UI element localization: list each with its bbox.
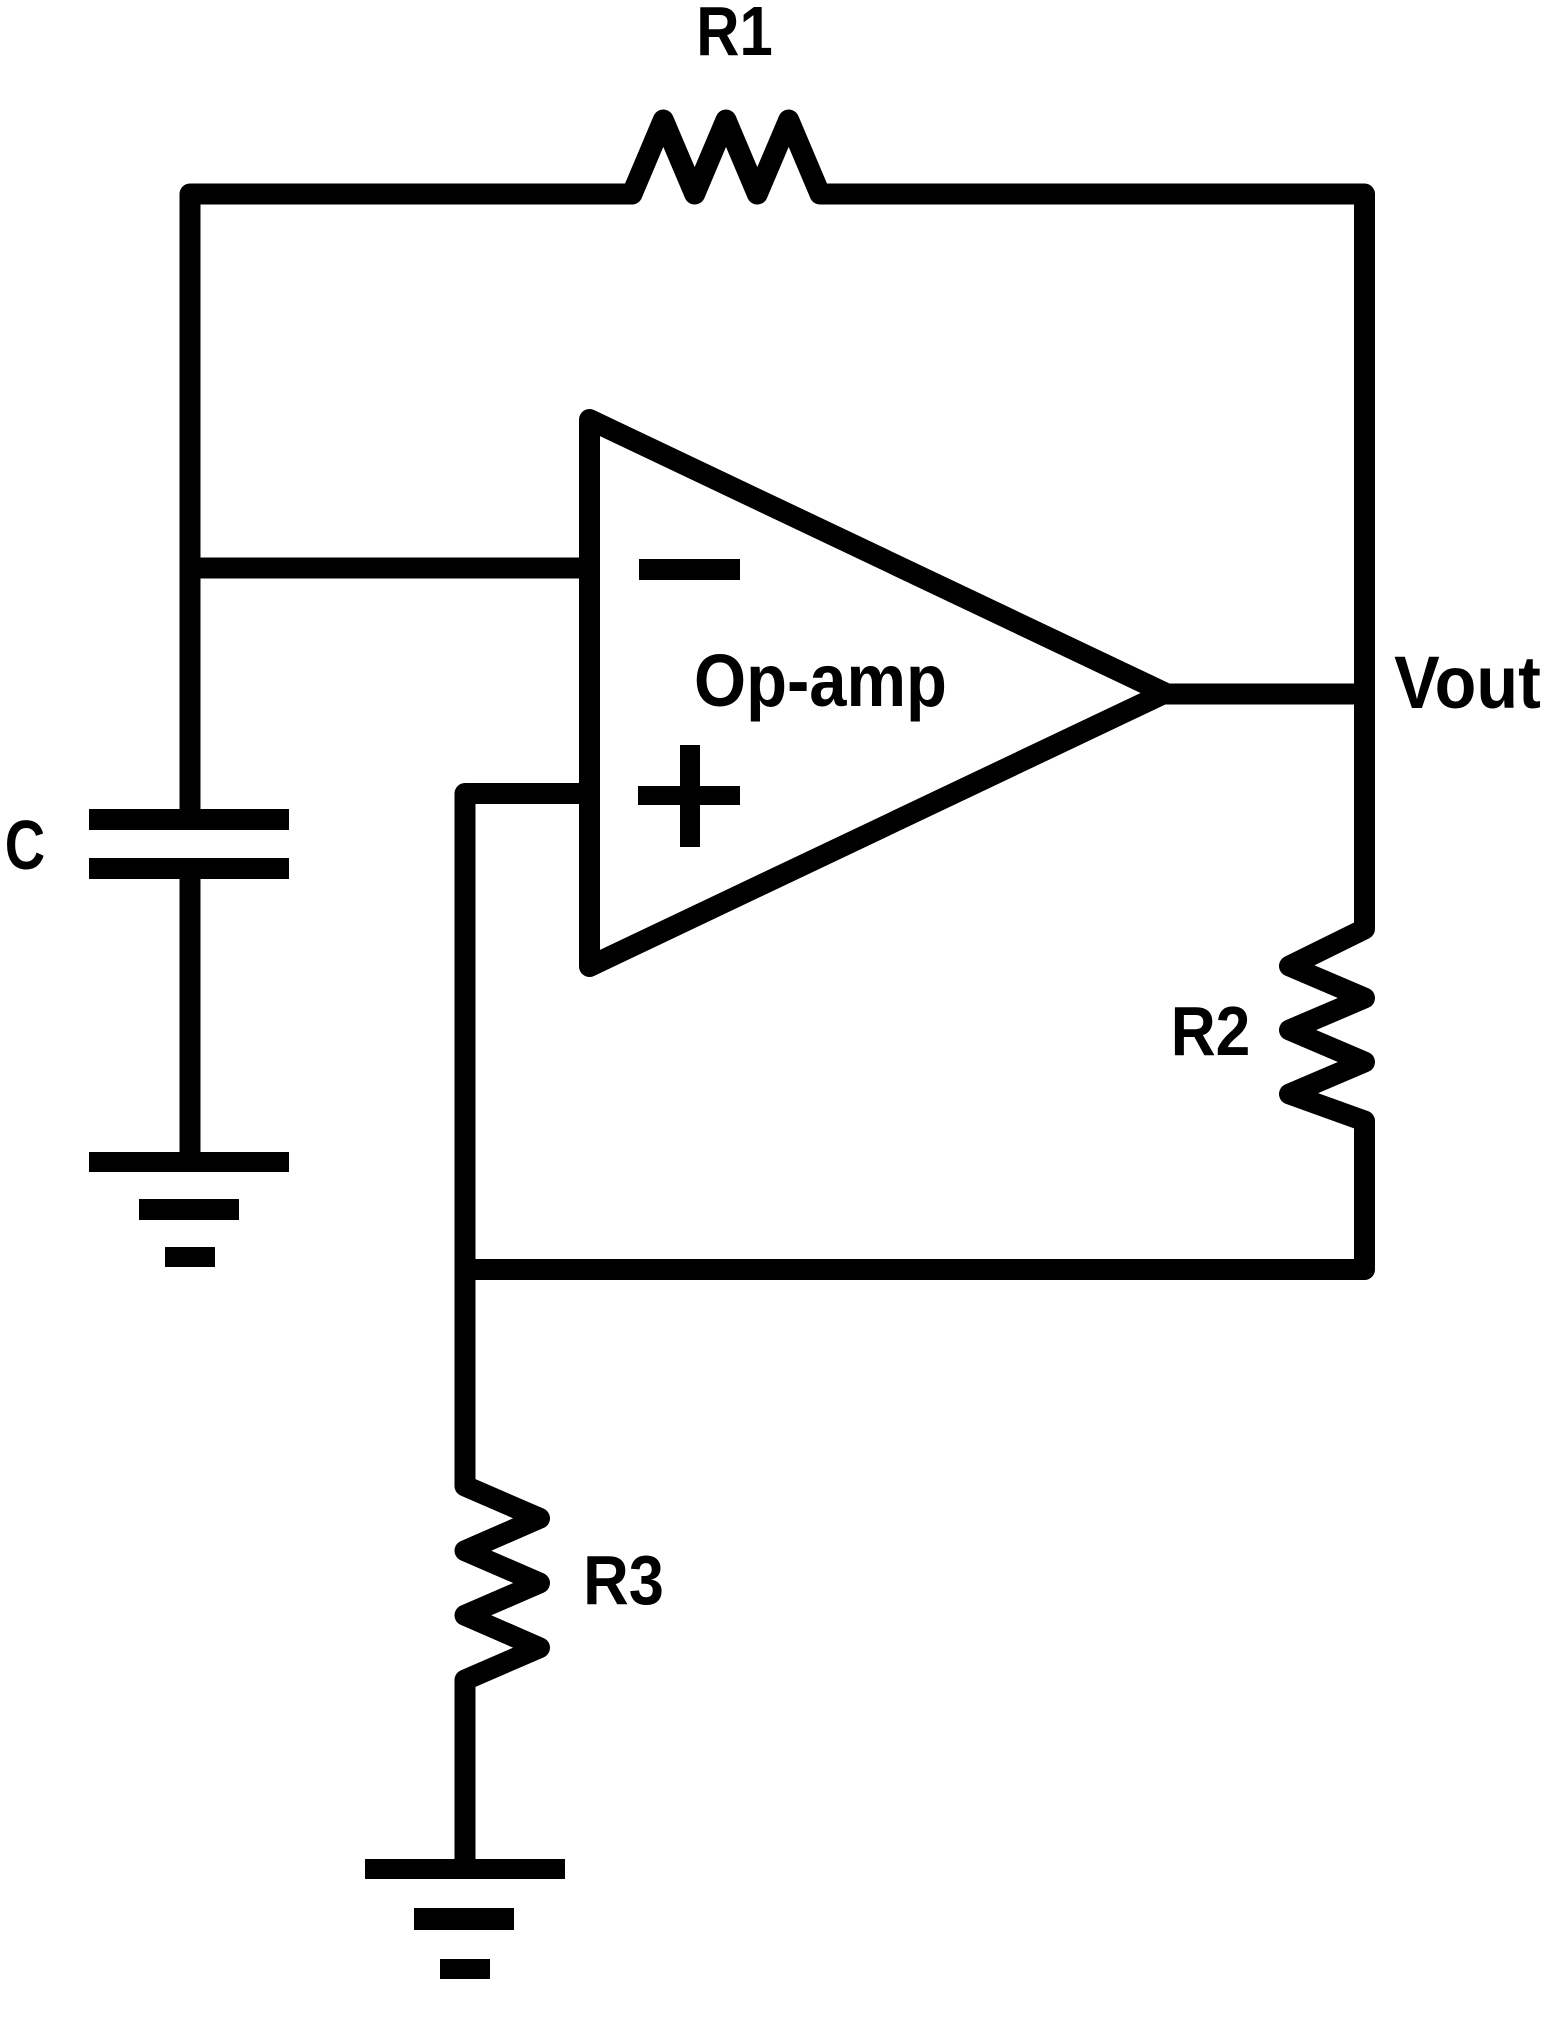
svg-text:R3: R3 (583, 1541, 664, 1619)
svg-text:C: C (5, 806, 45, 884)
svg-text:R1: R1 (696, 0, 773, 70)
svg-text:Op-amp: Op-amp (694, 639, 947, 722)
svg-text:Vout: Vout (1394, 641, 1541, 724)
svg-text:R2: R2 (1171, 992, 1251, 1070)
